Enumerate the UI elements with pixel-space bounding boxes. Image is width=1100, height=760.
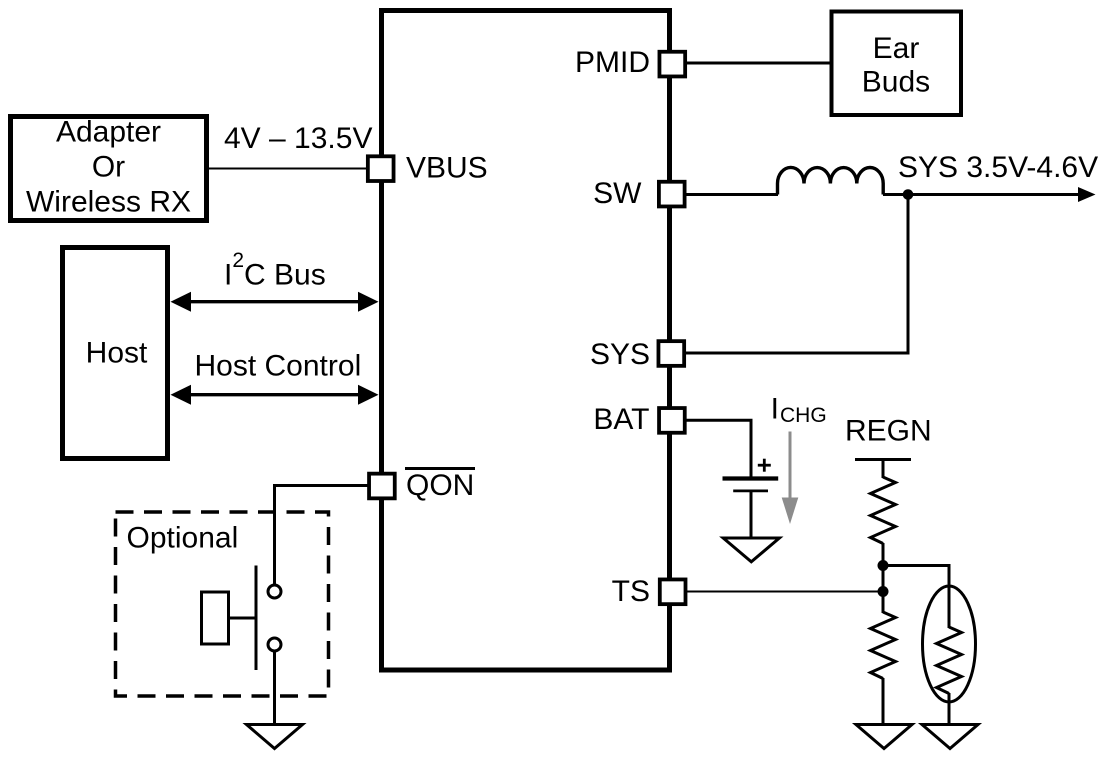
pin PMID	[575, 46, 685, 79]
wire SYS to node	[686, 195, 908, 354]
node B (TS junction)	[878, 586, 889, 597]
svg-text:SYS: SYS	[590, 338, 650, 371]
wire BAT to battery	[687, 420, 752, 477]
wire node A to thermistor	[883, 566, 949, 629]
thermistor RT1 zigzag	[937, 627, 962, 694]
box: Host	[63, 248, 168, 459]
arrow ICHG (gray)	[782, 432, 799, 525]
wire TS to node B	[687, 591, 883, 593]
ground (battery)	[723, 538, 779, 562]
svg-text:Buds: Buds	[862, 66, 930, 99]
wire thermistor to ground	[948, 693, 951, 725]
wire REGN bar to resistor R1	[882, 460, 885, 479]
svg-text:Ear: Ear	[873, 32, 920, 65]
wire inductor to node	[883, 193, 930, 196]
resistor R2	[871, 612, 896, 679]
ground (R2)	[856, 725, 912, 749]
svg-text:Optional: Optional	[127, 522, 239, 555]
pin TS	[612, 575, 686, 608]
ground (switch)	[247, 725, 303, 749]
battery BT1	[723, 479, 779, 540]
svg-text:QON: QON	[406, 469, 474, 502]
battery BT1 plus label	[758, 459, 771, 472]
node SYS junction	[903, 189, 914, 200]
pin SW	[593, 177, 684, 210]
wire adapter to VBUS	[208, 168, 367, 170]
pin SYS	[590, 338, 684, 371]
resistor R1	[871, 477, 896, 544]
IC body U1	[382, 11, 670, 671]
svg-text:I: I	[771, 393, 779, 426]
wire QON to switch	[275, 486, 368, 586]
svg-text:Host: Host	[86, 337, 148, 370]
pin QON (active low)	[369, 469, 475, 503]
box: Adapter Or Wireless RX	[11, 116, 207, 221]
svg-text:SYS 3.5V-4.6V: SYS 3.5V-4.6V	[898, 151, 1098, 184]
box: Ear Buds	[832, 12, 962, 116]
svg-text:SW: SW	[593, 177, 642, 210]
arrow I2C bus (double headed)	[171, 292, 379, 312]
arrow SYS output	[908, 187, 1096, 202]
wire R2 to ground	[882, 678, 885, 725]
node A (R1/thermistor junction)	[878, 560, 889, 571]
svg-text:BAT: BAT	[593, 403, 649, 436]
wire PMID to Ear Buds	[687, 62, 832, 65]
svg-text:4V – 13.5V: 4V – 13.5V	[224, 122, 372, 155]
arrow Host Control (double headed)	[171, 385, 379, 405]
svg-text:Adapter: Adapter	[56, 116, 161, 149]
wire switch to ground	[273, 651, 276, 725]
svg-text:REGN: REGN	[845, 415, 932, 448]
svg-text:TS: TS	[612, 575, 650, 608]
pin BAT	[593, 403, 684, 436]
thermistor RT1 ellipse	[923, 586, 976, 702]
svg-text:Wireless RX: Wireless RX	[26, 186, 191, 219]
svg-text:VBUS: VBUS	[406, 152, 488, 185]
box: Optional (dashed)	[116, 512, 329, 696]
svg-text:PMID: PMID	[575, 46, 650, 79]
REGN supply rail bar	[855, 458, 911, 461]
svg-text:Host Control: Host Control	[195, 350, 362, 383]
svg-text:Or: Or	[92, 151, 125, 184]
svg-text:CHG: CHG	[780, 404, 827, 427]
wire SW to inductor	[686, 193, 778, 196]
push button S1	[202, 566, 282, 671]
ground (thermistor)	[922, 725, 978, 749]
wire R1 to nodes	[882, 543, 885, 613]
pin VBUS	[368, 152, 488, 185]
inductor L1	[778, 167, 884, 194]
